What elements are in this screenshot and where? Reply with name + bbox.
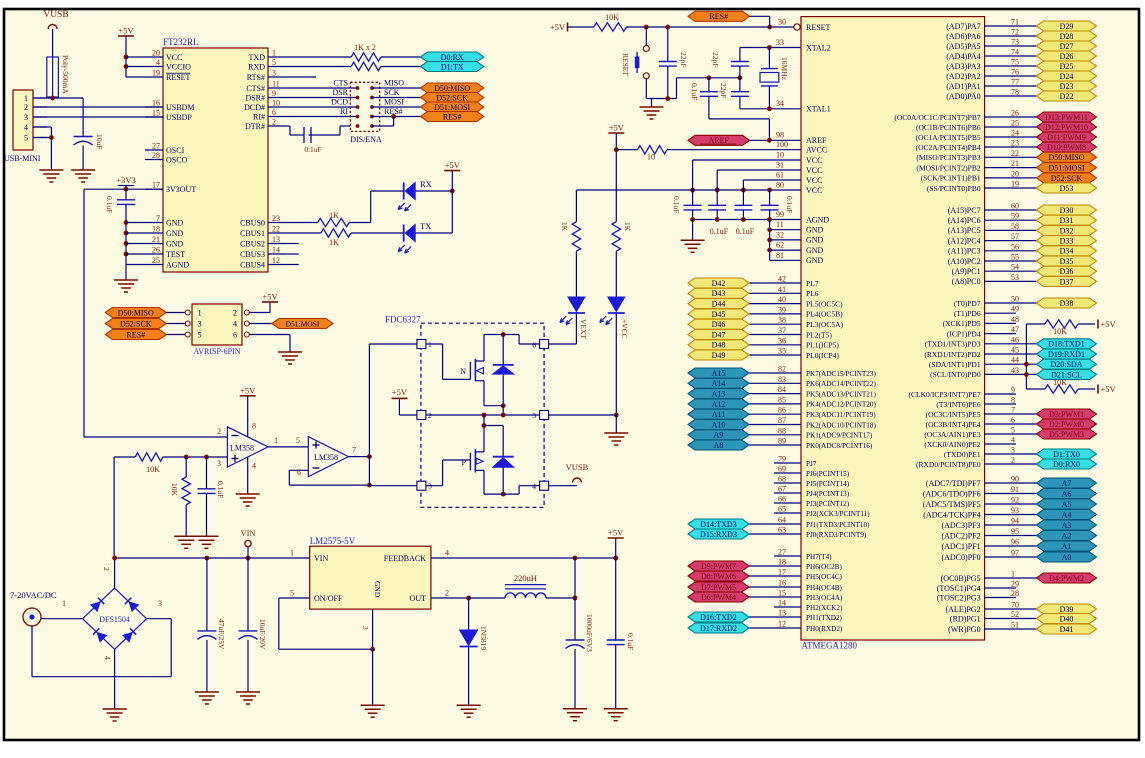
svg-text:(AD6)PA6: (AD6)PA6 [946,32,980,41]
LED +VCC [608,297,625,312]
svg-text:GND: GND [806,246,824,255]
FT232RL pin 3 RTS# [268,76,286,78]
wire USBDM [33,106,163,108]
FT232RL pin 11 CTS# [268,87,286,89]
svg-text:(ADC5/TMS)PF5: (ADC5/TMS)PF5 [923,500,981,509]
svg-text:PK1(ADC9/PCINT17): PK1(ADC9/PCINT17) [806,432,873,440]
svg-text:38: 38 [778,316,786,325]
svg-text:D39: D39 [1060,605,1074,614]
svg-text:19: 19 [1011,180,1019,189]
svg-text:68: 68 [778,475,786,484]
svg-text:21: 21 [152,235,160,244]
wire N-drain rail to pin6 [484,334,519,336]
svg-text:(T3/INT6)PE6: (T3/INT6)PE6 [936,400,980,409]
svg-text:PJ3(PCINT12): PJ3(PCINT12) [806,500,850,508]
svg-text:(MISO/PCINT3)PB3: (MISO/PCINT3)PB3 [916,153,980,162]
svg-text:(ICP1)PD4: (ICP1)PD4 [947,329,981,338]
svg-text:D14:TXD3: D14:TXD3 [700,520,736,529]
svg-text:42: 42 [778,275,786,284]
wire jumper bottom to RES# row [372,125,394,127]
svg-text:3: 3 [361,626,370,630]
svg-text:32: 32 [776,231,784,240]
svg-text:D3:PWM1: D3:PWM1 [1049,410,1084,419]
svg-text:(AD7)PA7: (AD7)PA7 [946,22,980,31]
svg-text:28: 28 [152,151,160,160]
svg-text:47: 47 [1011,325,1019,334]
svg-text:47uF/25V: 47uF/25V [217,619,226,650]
svg-text:VEXT: VEXT [579,319,588,339]
svg-text:8: 8 [252,422,256,431]
wire AREF net [750,139,802,141]
capacitor 47uF/25V [206,558,208,631]
FT232RL pin 15 USBDP [145,116,163,118]
svg-text:7: 7 [352,446,356,455]
wire jack sleeve loop [31,626,33,677]
wire VCC pin31 [717,169,801,171]
svg-text:AGND: AGND [166,260,189,269]
svg-text:92: 92 [1011,496,1019,505]
svg-text:79: 79 [778,455,786,464]
svg-text:16: 16 [778,579,786,588]
wire +VCC LED to FDC pin3 node [615,313,617,415]
svg-text:VIN: VIN [240,528,255,538]
svg-text:3: 3 [198,320,202,329]
svg-text:PK2(ADC10/PCINT18): PK2(ADC10/PCINT18) [806,421,876,429]
svg-text:GND: GND [806,226,824,235]
svg-text:18: 18 [152,225,160,234]
svg-text:97: 97 [1011,549,1019,558]
wire VCC pin10 [693,159,801,161]
svg-text:0.1uF: 0.1uF [672,196,681,213]
svg-text:PK5(ADC13/PCINT21): PK5(ADC13/PCINT21) [806,390,876,398]
svg-text:TXD: TXD [249,53,266,62]
svg-text:D0:RX0: D0:RX0 [1053,460,1080,469]
svg-text:3: 3 [217,459,221,468]
svg-text:D26: D26 [1060,52,1074,61]
svg-text:93: 93 [1011,506,1019,515]
svg-text:D51:MOSI: D51:MOSI [434,103,470,112]
svg-text:12: 12 [272,256,280,265]
FDC6327 pin 6 [540,340,549,349]
svg-text:57: 57 [1011,232,1019,241]
svg-text:ATMEGA1280: ATMEGA1280 [802,641,858,651]
svg-text:0.1uF: 0.1uF [105,196,114,213]
svg-text:(ADC6/TDO)PF6: (ADC6/TDO)PF6 [923,489,981,498]
svg-text:10uF/20V: 10uF/20V [258,619,267,650]
svg-text:D35: D35 [1060,257,1074,266]
svg-text:15: 15 [152,109,160,118]
wire RESET gnd rail [646,98,676,100]
svg-text:14: 14 [778,599,786,608]
svg-text:P: P [462,458,467,467]
svg-text:USB-MINI: USB-MINI [4,154,41,163]
svg-text:PH2(XCK2): PH2(XCK2) [806,604,843,612]
svg-text:10K: 10K [605,13,619,22]
svg-text:D34: D34 [1060,247,1074,256]
svg-text:(AD5)PA5: (AD5)PA5 [946,42,980,51]
svg-text:31: 31 [776,161,784,170]
svg-text:81: 81 [776,251,784,260]
svg-text:4: 4 [156,58,160,67]
svg-text:RES#: RES# [126,330,145,339]
wire 3V3OUT net [84,188,163,190]
tag D52:SCK (upper) [421,93,484,103]
svg-text:PJ6(PCINT15): PJ6(PCINT15) [806,470,850,478]
wire bridge pin2 to VIN rail [114,558,116,588]
svg-text:TEST: TEST [166,250,185,259]
svg-text:(ALE)PG2: (ALE)PG2 [945,605,980,614]
svg-text:75: 75 [1011,58,1019,67]
svg-text:(RXD0/PCINT8)PE0: (RXD0/PCINT8)PE0 [916,460,981,469]
svg-text:PL5(OC5C): PL5(OC5C) [806,299,843,308]
svg-text:A1: A1 [1062,542,1072,551]
svg-text:D50:MISO: D50:MISO [118,308,154,317]
svg-text:+5V: +5V [550,22,566,32]
FT232RL pin 12 CBUS4 [268,264,286,266]
svg-text:VUSB: VUSB [566,462,589,472]
svg-text:94: 94 [1011,517,1019,526]
resistor 10K pullup (SCL) [1026,388,1045,390]
svg-text:28: 28 [1011,589,1019,598]
svg-text:PH5(OC4C): PH5(OC4C) [806,573,843,581]
svg-text:PJ0(RXD3/PCINT9): PJ0(RXD3/PCINT9) [806,531,867,539]
resistor 1K (TXD) [286,56,351,58]
svg-text:D20:SDA: D20:SDA [1050,360,1082,369]
svg-text:RESET: RESET [621,53,630,76]
wire VCC pin61 [743,179,801,181]
svg-text:(OC0A/OC1C/PCINT7)PB7: (OC0A/OC1C/PCINT7)PB7 [894,113,981,122]
connector USB-MINI [13,90,33,150]
svg-text:VUSB: VUSB [43,10,68,20]
svg-text:(SCK/PCINT1)PB1: (SCK/PCINT1)PB1 [921,174,981,183]
svg-text:+5V: +5V [240,385,256,395]
LED TX [403,225,405,242]
FT232RL pin 26 TEST [145,253,163,255]
svg-text:CBUS4: CBUS4 [240,260,265,269]
svg-text:D1:TX0: D1:TX0 [1053,450,1080,459]
svg-text:4: 4 [103,656,112,660]
svg-text:90: 90 [1011,475,1019,484]
FT232RL pin 6 RI# [268,116,286,118]
transistor P-MOSFET (FDC6327) [426,485,443,487]
ground (+VCC node) [604,432,628,434]
svg-text:+5V: +5V [118,26,134,36]
svg-text:(OC0B)PG5: (OC0B)PG5 [941,574,981,583]
svg-text:D18:TXD1: D18:TXD1 [1048,340,1084,349]
svg-text:PK3(ADC11/PCINT19): PK3(ADC11/PCINT19) [806,411,876,419]
wire LM358-2 pin6 feedback [289,469,308,471]
svg-text:7: 7 [1011,406,1015,415]
wire LM358-1 pin4 to ground [247,457,249,494]
svg-text:21: 21 [1011,159,1019,168]
wire +5V to VCC/VCCIO/RESET pins [126,56,145,58]
svg-text:PK7(ADC15/PCINT23): PK7(ADC15/PCINT23) [806,370,876,378]
svg-text:6: 6 [233,331,237,340]
svg-text:+5V: +5V [608,528,624,538]
svg-text:16: 16 [152,99,160,108]
svg-text:83: 83 [778,375,786,384]
svg-text:D41: D41 [1060,625,1074,634]
svg-text:65: 65 [778,505,786,514]
wire SDA/SCL pullup vertical [1025,324,1027,389]
svg-text:95: 95 [1011,527,1019,536]
svg-text:63: 63 [778,526,786,535]
svg-text:(CLK0/ICP3/INT7)PE7: (CLK0/ICP3/INT7)PE7 [909,390,981,399]
svg-text:26: 26 [1011,109,1019,118]
svg-text:A9: A9 [714,431,724,440]
FT232RL pin 19 RESET [145,76,163,78]
svg-text:VCC: VCC [806,186,822,195]
capacitor 22pF (RESET) [667,27,669,62]
svg-text:(TOSC1)PG4: (TOSC1)PG4 [937,584,981,593]
svg-text:12: 12 [778,620,786,629]
wire LM358-1 pin3 input [163,456,228,458]
FT232RL pin 2 DTR# [268,125,286,127]
svg-text:84: 84 [778,385,786,394]
svg-text:PH7(T4): PH7(T4) [806,553,832,561]
svg-text:(AD0)PA0: (AD0)PA0 [946,92,980,101]
wire MOSI row [372,106,421,108]
svg-text:2: 2 [1011,456,1015,465]
FT232RL pin 13 CBUS2 [268,243,286,245]
svg-text:1000uF/6V3: 1000uF/6V3 [585,614,594,652]
svg-text:(WR)PG0: (WR)PG0 [948,625,980,634]
svg-text:(ADC2)PF2: (ADC2)PF2 [941,531,980,540]
chip U1 FT232RL body [163,48,268,272]
svg-text:D38: D38 [1060,299,1074,308]
svg-text:A2: A2 [1062,531,1072,540]
svg-text:73: 73 [1011,38,1019,47]
resistor 10K (horizontal) [135,453,163,461]
svg-text:85: 85 [778,395,786,404]
tag D50:MISO (AVRISP) [105,308,166,318]
svg-text:LM358: LM358 [314,453,338,462]
wire VIN rail [115,557,310,559]
capacitor 0.1uF (VCC bypass 3) [742,190,744,205]
svg-text:D49: D49 [712,351,726,360]
svg-text:1: 1 [24,94,28,103]
svg-text:DCD#: DCD# [244,103,265,112]
FDC6327 pin 3 (right) [540,411,549,420]
svg-text:25: 25 [152,256,160,265]
wire CTS to jumper [286,87,358,89]
wire CBUS2/3/4 stubs [286,243,299,245]
svg-text:D52:SCK: D52:SCK [1051,174,1083,183]
svg-text:67: 67 [778,485,786,494]
svg-text:FEEDBACK: FEEDBACK [384,554,426,563]
svg-text:PL2(T5): PL2(T5) [806,330,832,339]
svg-text:+5V: +5V [445,160,461,170]
svg-text:100: 100 [776,140,788,149]
bridge diode top-right [125,598,138,611]
tag D1:TX [421,62,484,72]
svg-text:XTAL2: XTAL2 [806,43,831,52]
svg-text:(RD)PG1: (RD)PG1 [950,614,981,623]
svg-text:PK0(ADC8/PCINT16): PK0(ADC8/PCINT16) [806,442,873,450]
svg-text:8: 8 [1011,396,1015,405]
svg-text:5: 5 [198,331,202,340]
svg-text:96: 96 [1011,538,1019,547]
inductor 220uH [469,597,505,599]
capacitor 22pF (XTAL2) [739,48,741,62]
svg-text:D50:MISO: D50:MISO [434,84,470,93]
tag D51:MOSI (AVRISP) [249,323,272,325]
svg-text:+5V: +5V [392,387,408,397]
connector AVRISP-6PIN body [192,304,242,345]
svg-text:82: 82 [778,365,786,374]
tag D51:MOSI (upper) [421,102,484,112]
svg-text:CBUS3: CBUS3 [240,250,265,259]
power +5V (LM358 pin8) [240,395,256,397]
svg-text:D15:RXD3: D15:RXD3 [700,530,737,539]
svg-text:RXD: RXD [248,62,265,71]
svg-text:61: 61 [776,171,784,180]
svg-text:A6: A6 [1062,489,1072,498]
wire AVRISP pin6 to ground [249,334,290,336]
ground (47uF) [195,691,219,693]
svg-text:2: 2 [217,427,221,436]
ground (AVRISP) [278,351,302,353]
capacitor 0.1uF (AREF) [708,78,710,92]
svg-text:30: 30 [778,18,786,27]
svg-text:(OC3C/INT5)PE5: (OC3C/INT5)PE5 [926,410,981,419]
wire DSR to jumper [286,97,358,99]
svg-text:16MHz: 16MHz [780,57,789,81]
svg-text:5: 5 [1011,426,1015,435]
svg-text:A7: A7 [1062,479,1072,488]
svg-text:50: 50 [1011,295,1019,304]
power port VUSB (FDC pin4) [549,485,577,487]
svg-text:59: 59 [1011,212,1019,221]
resistor 10K pullup (SDA) [1026,323,1045,325]
svg-text:78: 78 [1011,88,1019,97]
svg-text:27: 27 [778,548,786,557]
chip U2 LM2575-5V body [310,546,431,609]
svg-text:22pF: 22pF [719,83,728,98]
svg-text:D52:SCK: D52:SCK [436,93,468,102]
svg-text:D7:PWM5: D7:PWM5 [701,583,736,592]
svg-text:1K: 1K [560,222,569,232]
svg-text:TX: TX [420,221,431,231]
power +5V (SCL pullup) [1097,385,1099,394]
svg-text:D0:RX: D0:RX [441,53,464,62]
power +5V at FT232 VCC [118,35,134,37]
svg-text:RES#: RES# [709,12,728,21]
svg-text:DIS/ENA: DIS/ENA [350,135,382,144]
svg-text:99: 99 [776,210,784,219]
power +5V (AVCC) [608,132,624,134]
svg-text:48: 48 [1011,315,1019,324]
svg-text:PJ2(XCK3/PCINT11): PJ2(XCK3/PCINT11) [806,510,870,518]
wire bridge pin4 to ground [114,649,116,709]
svg-text:D22: D22 [1060,92,1074,101]
svg-text:A5: A5 [1062,500,1072,509]
svg-text:1: 1 [198,309,202,318]
FDC6327 pin 4 [540,481,549,490]
svg-text:D28: D28 [1060,32,1074,41]
ground (1N5819) [457,704,481,706]
svg-text:43: 43 [1011,366,1019,375]
svg-text:53: 53 [1011,273,1019,282]
svg-text:CBUS2: CBUS2 [240,239,265,248]
capacitor 0.1uF (VCC bypass 1) [692,190,694,205]
svg-text:A14: A14 [712,379,726,388]
svg-text:PL4(OC5B): PL4(OC5B) [806,310,843,319]
svg-text:3V3OUT: 3V3OUT [166,185,196,194]
svg-text:45: 45 [1011,346,1019,355]
svg-text:3: 3 [24,113,28,122]
wire LM358-1 pin2 input [84,436,227,438]
svg-text:0.1uF: 0.1uF [626,633,635,650]
svg-text:(A11)PC3: (A11)PC3 [948,247,981,256]
svg-text:62: 62 [776,241,784,250]
svg-text:CBUS1: CBUS1 [240,229,265,238]
ground (1000uF) [563,708,587,710]
svg-text:D33: D33 [1060,237,1074,246]
capacitor 0.1uF (VCC bypass 2) [716,190,718,205]
svg-text:D42: D42 [712,279,726,288]
svg-text:OSCO: OSCO [166,155,188,164]
svg-text:USBDP: USBDP [166,113,192,122]
wire LM358-2 output pin7 [348,456,369,458]
svg-text:(SS/PCINT0)PB0: (SS/PCINT0)PB0 [927,184,981,193]
svg-text:18: 18 [778,558,786,567]
tag RES# (top) [688,11,750,21]
svg-text:34: 34 [776,99,784,108]
svg-text:D31: D31 [1060,216,1074,225]
svg-text:D16:TXD2: D16:TXD2 [700,613,736,622]
svg-text:23: 23 [1011,139,1019,148]
svg-text:D27: D27 [1060,42,1074,51]
svg-text:25: 25 [1011,119,1019,128]
svg-text:+5V: +5V [609,123,625,133]
svg-text:A11: A11 [712,410,725,419]
svg-text:+VCC: +VCC [620,319,629,339]
svg-text:29: 29 [1011,580,1019,589]
wire TX LED to +5V [415,232,452,234]
svg-text:56: 56 [1011,242,1019,251]
transistor N-MOSFET (FDC6327) [426,343,443,345]
svg-text:PH0(RXD2): PH0(RXD2) [806,625,843,633]
resistor 10K (RESET pullup) [594,23,627,31]
svg-text:D43: D43 [712,289,726,298]
svg-text:70: 70 [1011,601,1019,610]
svg-text:17: 17 [152,181,160,190]
svg-text:RESET: RESET [166,73,191,82]
svg-text:1: 1 [290,549,294,558]
svg-text:(A13)PC5: (A13)PC5 [948,226,981,235]
svg-text:37: 37 [778,326,786,335]
svg-text:22: 22 [272,225,280,234]
FT232RL pin 1 TXD [268,56,286,58]
svg-text:(T1)PD6: (T1)PD6 [954,309,981,318]
svg-text:1K: 1K [329,238,339,247]
svg-text:CTS#: CTS# [246,84,265,93]
svg-text:10: 10 [776,151,784,160]
svg-text:74: 74 [1011,48,1019,57]
wire DCD to jumper [286,106,358,108]
svg-text:D13:PWM11: D13:PWM11 [1045,113,1088,122]
svg-text:10: 10 [647,153,655,162]
svg-text:4: 4 [532,482,536,491]
svg-text:44: 44 [1011,356,1019,365]
FT232RL pin 7 GND [145,222,163,224]
wire RTS# stub [286,76,316,78]
svg-text:D51:MOSI: D51:MOSI [1048,164,1084,173]
FDC6327 pin 1 [417,340,426,349]
svg-text:2: 2 [445,589,449,598]
svg-text:10uF: 10uF [95,134,104,149]
